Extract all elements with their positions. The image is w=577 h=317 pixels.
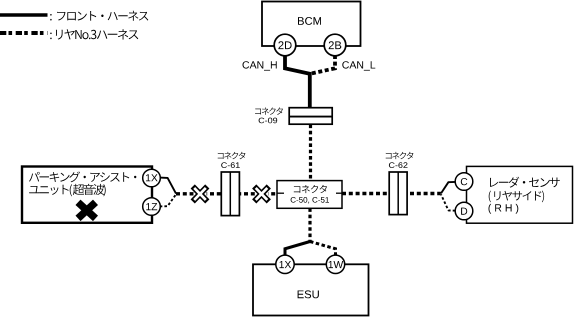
label (RH) [489,204,519,214]
ESU label [298,290,319,298]
label コネクタ (C-50/C-51) [294,185,327,193]
wire hook: pin 1X to junction (solid) [160,178,176,194]
wire: junction to C-50/C-51 left (rear No.3 harness, dashed) [176,192,277,195]
pin 1X (parking unit) [143,169,161,187]
connector C-50/C-51 box [277,181,342,209]
label パーキング・アシスト・ [29,172,136,183]
wire hook: junction to pin D (dashed) [441,194,455,210]
pin 1X (ESU) [276,255,294,273]
connector C-62 label コネクタ [386,152,414,159]
legend: rear No.3 harness sample line [0,31,48,35]
splice X mark 2 (left wire) [254,186,269,201]
legend label: フロント・ハーネス [50,11,148,21]
label ユニット(超音波) [29,184,106,196]
pin 2B [324,34,346,56]
connector C-09 symbol [289,108,332,125]
connector C-61 label C-61 [221,162,240,168]
parking assist unit box [22,167,152,223]
wire: C-50/C-51 bottom to ESU junction (dashed vertical) [308,208,311,241]
pin 2D [274,34,296,56]
label C-50, C-51 [291,197,329,204]
label (リヤサイド) [489,191,544,203]
wire: C-09 to connector C-50/C-51 (rear No.3 harness, dashed vertical) [309,125,312,181]
wire CAN_L: BCM pin 2B to junction (rear No.3 harness, dashed) [311,55,335,74]
connector C-61 symbol [221,172,239,216]
ESU box [253,264,369,315]
wire hook: junction to ESU pin 1W (dashed) [310,242,336,256]
wire hook: pin 1Z to junction (dashed) [160,194,176,206]
label CAN_L [342,61,375,70]
connector C-09 label C-09 [259,118,278,124]
radar sensor box [467,166,573,223]
connector C-62 label C-62 [389,162,408,168]
wire hook: junction to ESU pin 1X (solid) [285,242,310,256]
pin 1Z (parking unit) [143,198,161,216]
pin 1W (ESU) [326,255,344,273]
connector C-61 label コネクタ [218,152,246,159]
BCM box [262,2,361,47]
splice X mark 1 (left wire) [193,186,208,201]
wire hook: junction to pin C (solid) [441,182,455,194]
legend: front harness sample line [0,13,48,17]
wire stub inside box left [277,192,284,194]
label CAN_H [243,61,277,70]
BCM label [298,17,321,25]
wire: C-50/C-51 right to radar junction (rear No.3 harness, dashed) [342,192,441,195]
not-connected X mark inside parking unit box [78,202,96,218]
wire stub inside box right [336,192,342,194]
connector C-62 symbol [389,172,407,215]
wire CAN_H: BCM pin 2D to junction (front harness, solid) [285,55,310,108]
pin D (radar sensor) [455,202,473,220]
legend label: リヤNo.3ハーネス [50,29,138,39]
connector C-09 label コネクタ [255,107,283,114]
label レーダ・センサ [490,177,560,188]
pin C (radar sensor) [455,173,473,191]
